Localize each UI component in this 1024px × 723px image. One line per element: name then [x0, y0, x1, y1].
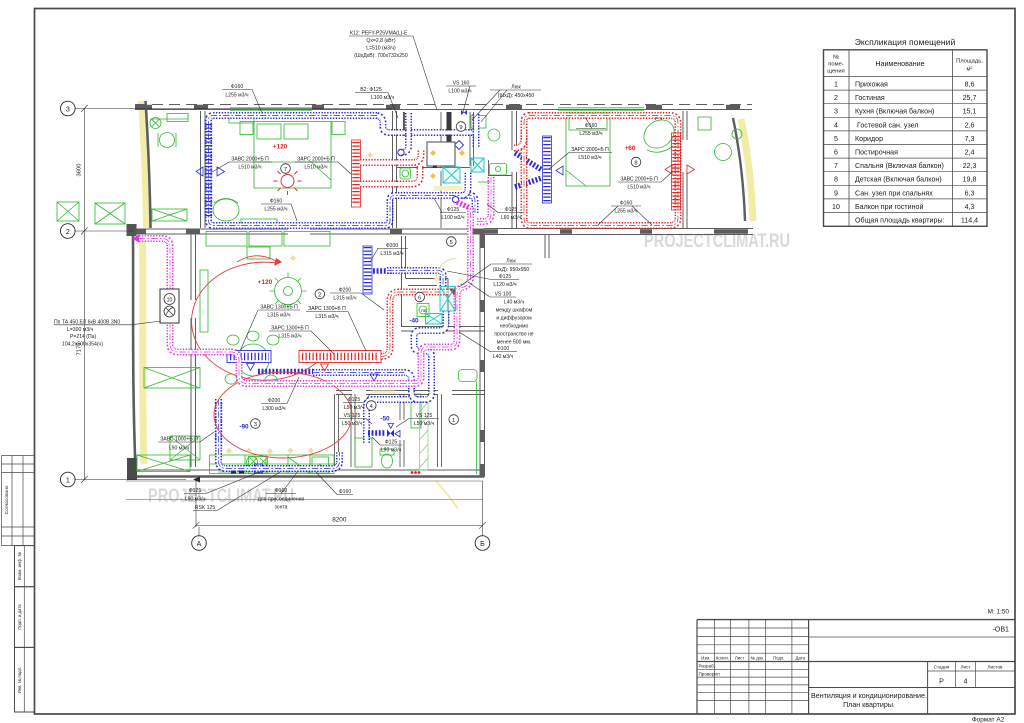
svg-text:L60 м3/ч: L60 м3/ч — [501, 215, 522, 221]
svg-text:Ф160: Ф160 — [585, 123, 598, 129]
svg-text:VS 100: VS 100 — [495, 292, 512, 298]
svg-text:Площадь,: Площадь, — [956, 59, 983, 65]
svg-text:(ШхДхВ): 700х732х250: (ШхДхВ): 700х732х250 — [354, 53, 408, 59]
svg-text:Кухня (Включая балкон): Кухня (Включая балкон) — [855, 108, 934, 116]
svg-text:Спальня (Включая балкон): Спальня (Включая балкон) — [855, 162, 944, 170]
svg-text:Согласовано: Согласовано — [4, 485, 10, 514]
svg-text:19,8: 19,8 — [963, 176, 977, 184]
svg-text:2,6: 2,6 — [965, 121, 975, 129]
svg-text:К12: PEFY-P25VMA(L)-Е: К12: PEFY-P25VMA(L)-Е — [350, 31, 408, 37]
svg-text:L50 м3/ч: L50 м3/ч — [342, 421, 363, 427]
svg-text:L90 м3/ч: L90 м3/ч — [169, 446, 190, 452]
svg-text:Б: Б — [480, 540, 485, 548]
svg-text:А: А — [197, 540, 202, 548]
svg-text:L510 м3/ч: L510 м3/ч — [627, 185, 650, 191]
svg-text:-40: -40 — [409, 318, 419, 325]
svg-text:L315 м3/ч: L315 м3/ч — [278, 334, 301, 340]
svg-text:5: 5 — [834, 135, 838, 143]
svg-text:L=510 (м3/ч): L=510 (м3/ч) — [366, 46, 396, 52]
svg-text:между шкафом: между шкафом — [496, 308, 533, 314]
svg-text:ПВ: ПВ — [421, 308, 427, 313]
svg-text:2: 2 — [834, 94, 838, 102]
svg-text:2: 2 — [66, 228, 70, 236]
svg-text:Лист: Лист — [735, 655, 744, 660]
svg-text:L50 м3/ч: L50 м3/ч — [414, 421, 435, 427]
svg-text:L315 м3/ч: L315 м3/ч — [267, 313, 290, 319]
svg-text:2: 2 — [318, 292, 321, 298]
svg-text:Qх=2,8 (кВт): Qх=2,8 (кВт) — [366, 38, 395, 44]
svg-text:Балкон при гостиной: Балкон при гостиной — [855, 203, 923, 211]
svg-text:Ф125: Ф125 — [348, 397, 361, 403]
svg-text:Ф200: Ф200 — [386, 243, 399, 249]
svg-text:Ф100: Ф100 — [497, 346, 510, 352]
svg-text:Гостевой сан. узел: Гостевой сан. узел — [857, 121, 918, 129]
svg-text:L50 м3/ч: L50 м3/ч — [344, 405, 365, 411]
svg-text:3: 3 — [834, 108, 838, 116]
svg-text:-ОВ1: -ОВ1 — [992, 626, 1009, 634]
svg-text:3600: 3600 — [77, 164, 83, 177]
svg-text:Сан. узел при спальнях: Сан. узел при спальнях — [855, 189, 933, 197]
svg-text:L510 м3/ч: L510 м3/ч — [304, 165, 327, 171]
svg-text:ЗАВС 1300+Б П: ЗАВС 1300+Б П — [260, 305, 298, 311]
svg-text:L315 м3/ч: L315 м3/ч — [315, 314, 338, 320]
svg-text:ЗАВС 1000+Б П: ЗАВС 1000+Б П — [160, 437, 198, 443]
svg-text:10: 10 — [167, 298, 173, 304]
svg-text:VS 125: VS 125 — [416, 413, 433, 419]
svg-text:4,3: 4,3 — [965, 203, 975, 211]
svg-text:L40 м3/ч: L40 м3/ч — [504, 300, 525, 306]
svg-text:Взам. инф. №: Взам. инф. № — [17, 552, 22, 580]
svg-text:7: 7 — [284, 167, 287, 173]
svg-text:7: 7 — [834, 162, 838, 170]
svg-text:15,1: 15,1 — [963, 108, 977, 116]
svg-text:1: 1 — [452, 418, 455, 424]
svg-text:М: 1:50: М: 1:50 — [988, 609, 1010, 616]
svg-text:3: 3 — [66, 105, 70, 113]
svg-text:25,7: 25,7 — [963, 94, 977, 102]
svg-text:2,4: 2,4 — [965, 149, 975, 157]
svg-text:114,4: 114,4 — [961, 217, 978, 225]
svg-text:Лист: Лист — [961, 665, 972, 670]
svg-text:Ф200: Ф200 — [268, 398, 281, 404]
svg-text:Наименование: Наименование — [875, 60, 924, 68]
svg-text:6: 6 — [834, 149, 838, 157]
svg-text:L315 м3/ч: L315 м3/ч — [333, 296, 356, 302]
svg-text:9: 9 — [459, 125, 462, 131]
svg-text:ЗАВС 2000+Б П: ЗАВС 2000+Б П — [620, 177, 658, 183]
svg-text:менее 500 мм.: менее 500 мм. — [497, 340, 532, 346]
svg-text:Гостиная: Гостиная — [855, 94, 885, 102]
svg-text:(ШхД): 950х950: (ШхД): 950х950 — [493, 267, 530, 273]
svg-text:+60: +60 — [625, 145, 636, 152]
svg-text:5: 5 — [450, 240, 453, 246]
svg-text:Ф125: Ф125 — [447, 207, 460, 213]
svg-text:7175: 7175 — [77, 343, 83, 356]
svg-text:Разраб.: Разраб. — [699, 664, 716, 669]
svg-text:Ф160: Ф160 — [339, 489, 352, 495]
svg-text:Постирочная: Постирочная — [855, 149, 898, 157]
svg-text:В2: Ф125: В2: Ф125 — [360, 87, 382, 93]
svg-text:(ШхД): 450х450: (ШхД): 450х450 — [498, 93, 535, 99]
svg-text:Дата: Дата — [795, 655, 805, 660]
svg-text:Ф200: Ф200 — [339, 288, 352, 294]
svg-text:необходимо: необходимо — [500, 324, 529, 330]
svg-text:VS 160: VS 160 — [453, 81, 470, 87]
svg-text:Общая площадь квартиры:: Общая площадь квартиры: — [855, 217, 945, 225]
svg-text:-50: -50 — [380, 416, 390, 423]
svg-text:10: 10 — [832, 203, 840, 211]
svg-text:Изм.: Изм. — [701, 655, 710, 660]
svg-text:L=300 м3/ч: L=300 м3/ч — [67, 327, 93, 333]
svg-text:8200: 8200 — [332, 517, 347, 524]
svg-text:L100 м3/ч: L100 м3/ч — [371, 95, 394, 101]
svg-text:22,3: 22,3 — [963, 162, 977, 170]
svg-text:8: 8 — [834, 176, 838, 184]
svg-text:L100 м3/ч: L100 м3/ч — [441, 215, 464, 221]
svg-text:и диффузором: и диффузором — [496, 316, 532, 322]
svg-text:Ф125: Ф125 — [385, 440, 398, 446]
svg-text:для присоединения: для присоединения — [258, 497, 305, 503]
svg-text:зонта: зонта — [274, 505, 287, 511]
svg-text:L90 м3/ч: L90 м3/ч — [381, 448, 402, 454]
svg-text:L315 м3/ч: L315 м3/ч — [380, 251, 403, 257]
svg-text:м²: м² — [967, 67, 973, 73]
svg-text:поме-: поме- — [828, 62, 844, 68]
svg-text:3: 3 — [254, 422, 257, 428]
svg-text:7,3: 7,3 — [965, 135, 975, 143]
svg-text:8,6: 8,6 — [965, 81, 975, 89]
svg-text:ЗАРС 2000+Б П: ЗАРС 2000+Б П — [297, 157, 335, 163]
svg-text:Ф125: Ф125 — [189, 488, 202, 494]
svg-text:L300 м3/ч: L300 м3/ч — [262, 406, 285, 412]
svg-text:L100 м3/ч: L100 м3/ч — [448, 89, 471, 95]
svg-text:L120 м3/ч: L120 м3/ч — [493, 282, 516, 288]
svg-text:Р=214 (Па): Р=214 (Па) — [70, 334, 96, 340]
svg-text:Люк: Люк — [511, 85, 521, 91]
svg-text:L510 м3/ч: L510 м3/ч — [578, 155, 601, 161]
svg-text:Ф160: Ф160 — [620, 201, 633, 207]
svg-text:L255 м3/ч: L255 м3/ч — [225, 93, 248, 99]
svg-text:Инв. № подл.: Инв. № подл. — [17, 667, 22, 694]
svg-text:L90 м3/ч: L90 м3/ч — [185, 497, 206, 503]
svg-text:L255 м3/ч: L255 м3/ч — [579, 131, 602, 137]
svg-text:Детская (Включая балкон): Детская (Включая балкон) — [855, 176, 942, 184]
svg-text:Ф160: Ф160 — [270, 199, 283, 205]
svg-text:Стадия: Стадия — [934, 665, 950, 670]
svg-text:Колич.: Колич. — [716, 655, 729, 660]
svg-text:1: 1 — [66, 476, 70, 484]
svg-text:№ док.: № док. — [750, 655, 764, 660]
svg-text:ЗАВС 2000+Б П: ЗАВС 2000+Б П — [231, 157, 269, 163]
svg-text:Люк: Люк — [506, 259, 516, 265]
svg-text:ЗАРС 1300+Б П: ЗАРС 1300+Б П — [308, 306, 346, 312]
svg-text:6: 6 — [418, 295, 421, 301]
svg-text:Пп ТА 450 ЕЛ 6кВ 400В 3N0: Пп ТА 450 ЕЛ 6кВ 400В 3N0 — [54, 319, 120, 325]
svg-text:№: № — [833, 55, 839, 61]
svg-text:щения: щения — [827, 69, 845, 75]
svg-text:1: 1 — [834, 81, 838, 89]
svg-text:Ф125: Ф125 — [505, 207, 518, 213]
svg-text:Вентиляция и кондиционирование: Вентиляция и кондиционирование. — [811, 692, 927, 700]
svg-text:Прихожая: Прихожая — [855, 81, 888, 89]
svg-text:4: 4 — [964, 678, 968, 686]
svg-text:+120: +120 — [273, 144, 288, 151]
svg-text:L255 м3/ч: L255 м3/ч — [614, 209, 637, 215]
svg-text:+120: +120 — [258, 279, 273, 286]
svg-text:пространство не: пространство не — [494, 332, 533, 338]
svg-text:ЗАРС 2000+Б П: ЗАРС 2000+Б П — [571, 147, 609, 153]
svg-text:RSK 125: RSK 125 — [195, 505, 216, 511]
svg-text:Коридор: Коридор — [855, 135, 883, 143]
svg-text:Формат А2: Формат А2 — [972, 717, 1005, 723]
svg-text:6,3: 6,3 — [965, 189, 975, 197]
svg-text:Экспликация помещений: Экспликация помещений — [855, 37, 956, 47]
svg-text:Ф160: Ф160 — [275, 488, 288, 494]
svg-text:Подп.: Подп. — [773, 655, 784, 660]
svg-text:Листов: Листов — [988, 665, 1003, 670]
svg-text:L40 м3/ч: L40 м3/ч — [493, 354, 514, 360]
svg-text:Ф125: Ф125 — [499, 274, 512, 280]
svg-text:Подп. и дата: Подп. и дата — [17, 604, 22, 630]
svg-text:Ф160: Ф160 — [231, 84, 244, 90]
svg-text:8: 8 — [634, 160, 637, 166]
svg-text:Проверил: Проверил — [699, 671, 720, 676]
svg-text:Р: Р — [939, 678, 944, 686]
svg-text:ЗАРС 1300+Б П: ЗАРС 1300+Б П — [271, 326, 309, 332]
svg-text:4: 4 — [834, 121, 838, 129]
svg-text:L255 м3/ч: L255 м3/ч — [264, 207, 287, 213]
svg-text:-90: -90 — [239, 424, 249, 431]
svg-text:L510 м3/ч: L510 м3/ч — [238, 165, 261, 171]
svg-text:План квартиры.: План квартиры. — [843, 701, 895, 709]
svg-text:VS 125: VS 125 — [344, 413, 361, 419]
svg-text:9: 9 — [834, 189, 838, 197]
